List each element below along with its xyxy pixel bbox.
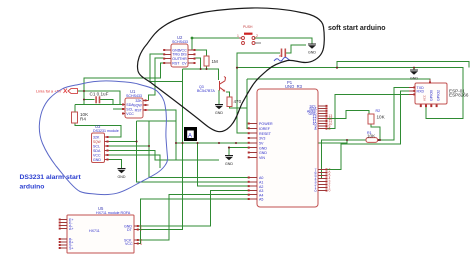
node A black square icon — [184, 127, 197, 141]
wire cap C2 left to outer loop — [237, 53, 280, 133]
svg-text:32K: 32K — [135, 99, 142, 103]
svg-text:VCC: VCC — [93, 154, 101, 158]
push button PUSH — [237, 25, 261, 45]
node outer loop — [236, 67, 238, 69]
wire C1 left lead — [84, 99, 95, 101]
IC U2 555 timer — [163, 35, 195, 67]
svg-text:5V: 5V — [259, 142, 264, 146]
svg-text:DT: DT — [127, 228, 133, 232]
capacitor C1 — [90, 92, 109, 104]
svg-text:1M: 1M — [212, 59, 219, 64]
svg-text:SQW: SQW — [133, 104, 142, 108]
wire top-right loop y=61.7 — [337, 62, 469, 68]
wire bus y=69 to transistor base feed — [183, 69, 219, 80]
node R1 right — [379, 139, 381, 141]
svg-text:SCHS433: SCHS433 — [172, 40, 188, 44]
wire U2 output down to U1 — [149, 58, 165, 100]
ground (below Q3) — [215, 105, 223, 116]
wire long 5V trunk y=143.5 — [176, 140, 347, 143]
ground (below U3 module) — [118, 169, 126, 180]
black blob outline (soft start circle) — [137, 8, 324, 132]
wire U3 SCL riser to A0 — [109, 145, 149, 147]
capacitor C2 — [281, 49, 286, 58]
wire 1M bottom to bus y=69 — [206, 66, 208, 69]
svg-text:8: 8 — [329, 127, 331, 131]
svg-text:2: 2 — [140, 228, 142, 232]
wire 10K R4 top — [74, 105, 76, 113]
svg-text:VCC: VCC — [126, 112, 134, 116]
wire U2 left pin x150 leg — [150, 54, 183, 82]
wire riser top to x=176 trunk — [137, 120, 176, 122]
svg-text:4: 4 — [140, 242, 142, 246]
svg-text:SCHS433: SCHS433 — [126, 94, 142, 98]
wire HX711 VCC to A5 — [139, 199, 249, 244]
wire top net y=38 from U2 to push button — [192, 37, 242, 39]
left pin group POWER — [249, 124, 257, 158]
wire R1 right to far right — [378, 87, 410, 140]
svg-text:GPIO0: GPIO0 — [430, 90, 434, 101]
svg-text:RST: RST — [135, 109, 143, 113]
ground (near ESP module) — [410, 70, 418, 81]
ground (top, near push) — [308, 44, 316, 55]
right pin group digital top — [318, 106, 327, 129]
svg-text:A+: A+ — [69, 227, 74, 231]
svg-text:HX711: HX711 — [89, 229, 100, 233]
svg-text:GND: GND — [259, 151, 267, 155]
svg-text:32K: 32K — [93, 136, 100, 140]
svg-text:GND: GND — [93, 158, 101, 162]
node C1 top junction — [83, 99, 85, 101]
svg-text:VCC: VCC — [125, 242, 133, 246]
left pin group A0-A5 — [249, 178, 257, 200]
arduino P1 UNO_R3 — [248, 80, 333, 207]
svg-text:SQW: SQW — [93, 140, 101, 144]
svg-text:GND: GND — [259, 146, 267, 150]
svg-text:1: 1 — [237, 34, 239, 38]
wire trunk tap to arduino A2 — [198, 143, 250, 186]
svg-text:CV: CV — [182, 61, 188, 65]
node bus y69 — [200, 68, 202, 70]
resistor R1 — [366, 131, 378, 142]
wire arduino D11 to R2 — [327, 111, 369, 119]
resistor R4 10K — [72, 112, 90, 123]
svg-text:A5: A5 — [259, 198, 263, 202]
svg-text:GND: GND — [410, 77, 418, 81]
svg-text:IOREF: IOREF — [259, 127, 271, 131]
wire R2 bottom to R1 right — [371, 124, 380, 140]
wire Q3 emitter to ground — [218, 90, 220, 104]
wire arduino D8 to ESP pin3 — [327, 94, 409, 128]
wire R1 left to D4 — [322, 140, 367, 179]
wire U3 VCC — [109, 155, 160, 168]
svg-text:3V3: 3V3 — [259, 137, 265, 141]
svg-text:RST: RST — [172, 61, 180, 65]
svg-text:470: 470 — [234, 99, 242, 104]
wire HX711 SCK to A4 — [139, 195, 249, 240]
wire 470 bottom run — [230, 106, 248, 108]
svg-text:DS3231 module: DS3231 module — [93, 129, 119, 133]
wire U2 right pin row2 down — [194, 58, 201, 69]
svg-text:HX711 module ROFA: HX711 module ROFA — [96, 211, 131, 215]
wire arduino GND pin to ground — [229, 148, 249, 155]
resistor R2 — [368, 109, 386, 124]
wire HX711 GND to A3 — [139, 190, 249, 226]
wire inner loop left leg to IOREF — [247, 79, 249, 128]
node A junction — [83, 90, 85, 92]
node U2 top — [191, 37, 194, 40]
svg-text:DS3231 alarm start: DS3231 alarm start — [20, 174, 82, 181]
wire outer big loop y=67.7 right side — [237, 68, 463, 119]
wire ESP pin2 to arduino D7 — [327, 91, 409, 170]
transistor Q3 BC547BTA — [197, 77, 226, 94]
ground symbols — [118, 44, 419, 179]
wire HX711 DT to 5V trunk via x=182.5 — [139, 143, 183, 230]
wire trunk to arduino 5V pin — [236, 142, 249, 144]
node gnd branch — [228, 147, 230, 149]
wire U1 right pin to trunk x=176 — [149, 110, 177, 160]
wire node row y=104.5 to U1 pins — [75, 104, 122, 106]
svg-text:GND: GND — [308, 51, 316, 55]
wire U2 right pin to 1M top — [194, 50, 207, 56]
wire node A to U1 rail — [84, 91, 120, 105]
ESP8266 module — [409, 79, 469, 107]
wire SQW vertical riser to arduino A1 — [137, 121, 249, 182]
svg-text:GPIO2: GPIO2 — [437, 90, 441, 101]
svg-text:A: A — [188, 134, 192, 140]
svg-text:GND: GND — [118, 175, 126, 179]
wire U3 GND to ground — [109, 160, 122, 169]
svg-text:ESP8266: ESP8266 — [449, 93, 469, 98]
wire Q3 collector down to 470 — [226, 92, 230, 97]
svg-text:POWER: POWER — [259, 122, 273, 126]
svg-text:UNO_R3: UNO_R3 — [285, 84, 303, 89]
IC U1 — [122, 89, 149, 118]
ground (below arduino GND pin) — [225, 156, 233, 167]
svg-text:SCL: SCL — [93, 145, 100, 149]
svg-text:R2: R2 — [376, 109, 381, 113]
svg-text:10K: 10K — [377, 115, 386, 120]
svg-text:soft start arduino: soft start arduino — [328, 25, 386, 32]
svg-text:PI: PI — [279, 54, 282, 58]
svg-text:arduino: arduino — [20, 184, 45, 191]
svg-text:10K: 10K — [367, 133, 376, 138]
svg-text:GND: GND — [215, 111, 223, 115]
svg-text:8: 8 — [315, 127, 317, 131]
wire U2 pin8 to top net — [192, 38, 194, 50]
svg-text:VIN: VIN — [259, 156, 265, 160]
svg-text:GND: GND — [225, 162, 233, 166]
blue blob outline (DS3231 circle) — [39, 81, 167, 195]
svg-text:RXD: RXD — [417, 90, 425, 94]
svg-text:0: 0 — [315, 189, 317, 193]
svg-text:R4: R4 — [80, 117, 86, 122]
wire U3 SQW riser to A1 — [109, 141, 137, 143]
wire SCL vertical riser to arduino A0 — [149, 121, 249, 178]
wire main vertical x=182.5 — [182, 69, 184, 143]
wire cap C2 right to gnd net — [286, 45, 306, 53]
callout terminal — [68, 89, 78, 94]
HX711 module U5 — [59, 206, 142, 253]
wire U1 left pin row2 — [113, 108, 122, 110]
svg-text:SCL: SCL — [126, 108, 133, 112]
svg-text:SDA: SDA — [93, 149, 101, 153]
resistor 470 — [227, 97, 242, 107]
wire C1 right lead — [100, 100, 114, 105]
svg-text:PUSH: PUSH — [243, 25, 253, 29]
node trunk dots — [175, 142, 177, 144]
wire U3 SDA — [109, 151, 219, 161]
wire push to GND tap — [254, 38, 312, 44]
wire 10K R4 bottom to U3 32K pin — [75, 123, 121, 137]
svg-text:VCC: VCC — [423, 95, 427, 101]
right pin group digital bottom — [318, 170, 327, 191]
wire inner loop y=79 to ESP top — [247, 79, 430, 83]
svg-text:S+: S+ — [69, 247, 74, 251]
wire U2 left pin loop to left area y=78 — [84, 63, 164, 105]
svg-text:BC547BTA: BC547BTA — [197, 89, 215, 93]
wire ESP gnd tap — [413, 68, 415, 70]
svg-text:RESET: RESET — [259, 132, 272, 136]
svg-text:2: 2 — [256, 34, 258, 38]
DS3231 module U3 — [92, 124, 119, 163]
red cross mark — [64, 89, 68, 94]
blue ink squiggle near capacitor — [274, 57, 290, 61]
wire callout to node A — [78, 90, 84, 92]
svg-text:0: 0 — [329, 189, 331, 193]
resistor 1M — [204, 56, 218, 66]
svg-text:C1 0.1uF: C1 0.1uF — [90, 92, 109, 97]
